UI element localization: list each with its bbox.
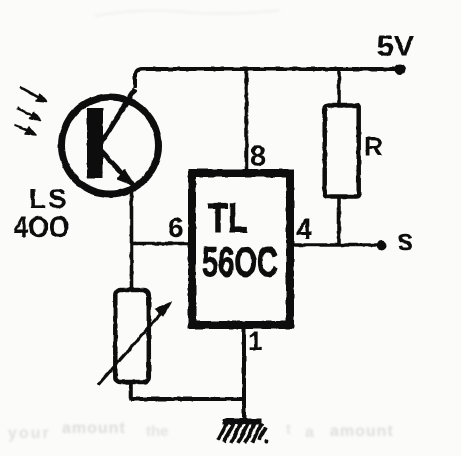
terminal dot 5V	[395, 64, 406, 75]
wire: potentiometer bottom stub	[129, 382, 133, 400]
potentiometer wiper arrow	[98, 310, 164, 385]
resistor R	[325, 106, 359, 197]
phototransistor emitter arrowhead	[118, 170, 134, 185]
svg-text:LS: LS	[29, 183, 69, 214]
svg-text:8: 8	[250, 141, 266, 173]
faint bleed-through smudges (decorative)	[8, 10, 394, 442]
wire: IC pin 4 to terminal s	[294, 243, 377, 247]
wire: rail down to resistor R top	[337, 69, 341, 105]
light arrow 3	[14, 125, 36, 135]
svg-text:s: s	[397, 224, 414, 257]
wire: resistor R bottom down to s node	[337, 196, 341, 245]
svg-text:TL: TL	[208, 194, 248, 241]
svg-text:amount: amount	[62, 420, 126, 437]
svg-text:1: 1	[248, 326, 262, 356]
wire: rail down to IC pin 8	[245, 69, 249, 171]
svg-text:5V: 5V	[377, 31, 415, 63]
ground	[218, 419, 269, 444]
svg-text:the: the	[146, 423, 169, 440]
svg-text:t: t	[286, 421, 291, 438]
schematic ink	[14, 31, 415, 444]
light arrow 2	[17, 108, 41, 120]
light arrow 1	[20, 87, 47, 102]
phototransistor emitter line	[100, 150, 136, 188]
IC U1 TL560C body	[192, 173, 290, 325]
svg-text:56OC: 56OC	[202, 238, 278, 285]
wire: 5V top supply rail with left corner drop to collector	[135, 69, 397, 88]
svg-text:4: 4	[296, 214, 312, 246]
svg-text:6: 6	[168, 212, 184, 243]
wire: bottom return potentiometer to pin 1 wire	[131, 397, 244, 401]
phototransistor LS400 circle	[62, 97, 159, 194]
terminal dot s	[377, 241, 387, 251]
svg-text:amount: amount	[330, 423, 394, 440]
potentiometer P (variable resistor) body	[115, 290, 149, 382]
svg-text:4OO: 4OO	[14, 211, 70, 244]
svg-text:your: your	[8, 425, 51, 442]
wire: emitter node to IC pin 6	[131, 242, 192, 246]
wire: emitter down through pin-6 node to potentiometer	[130, 188, 134, 290]
phototransistor collector line	[100, 89, 135, 145]
svg-text:a: a	[305, 424, 315, 441]
wire: IC pin 1 down to ground	[242, 325, 246, 420]
svg-text:R: R	[364, 132, 383, 162]
phototransistor base plate	[87, 108, 103, 178]
